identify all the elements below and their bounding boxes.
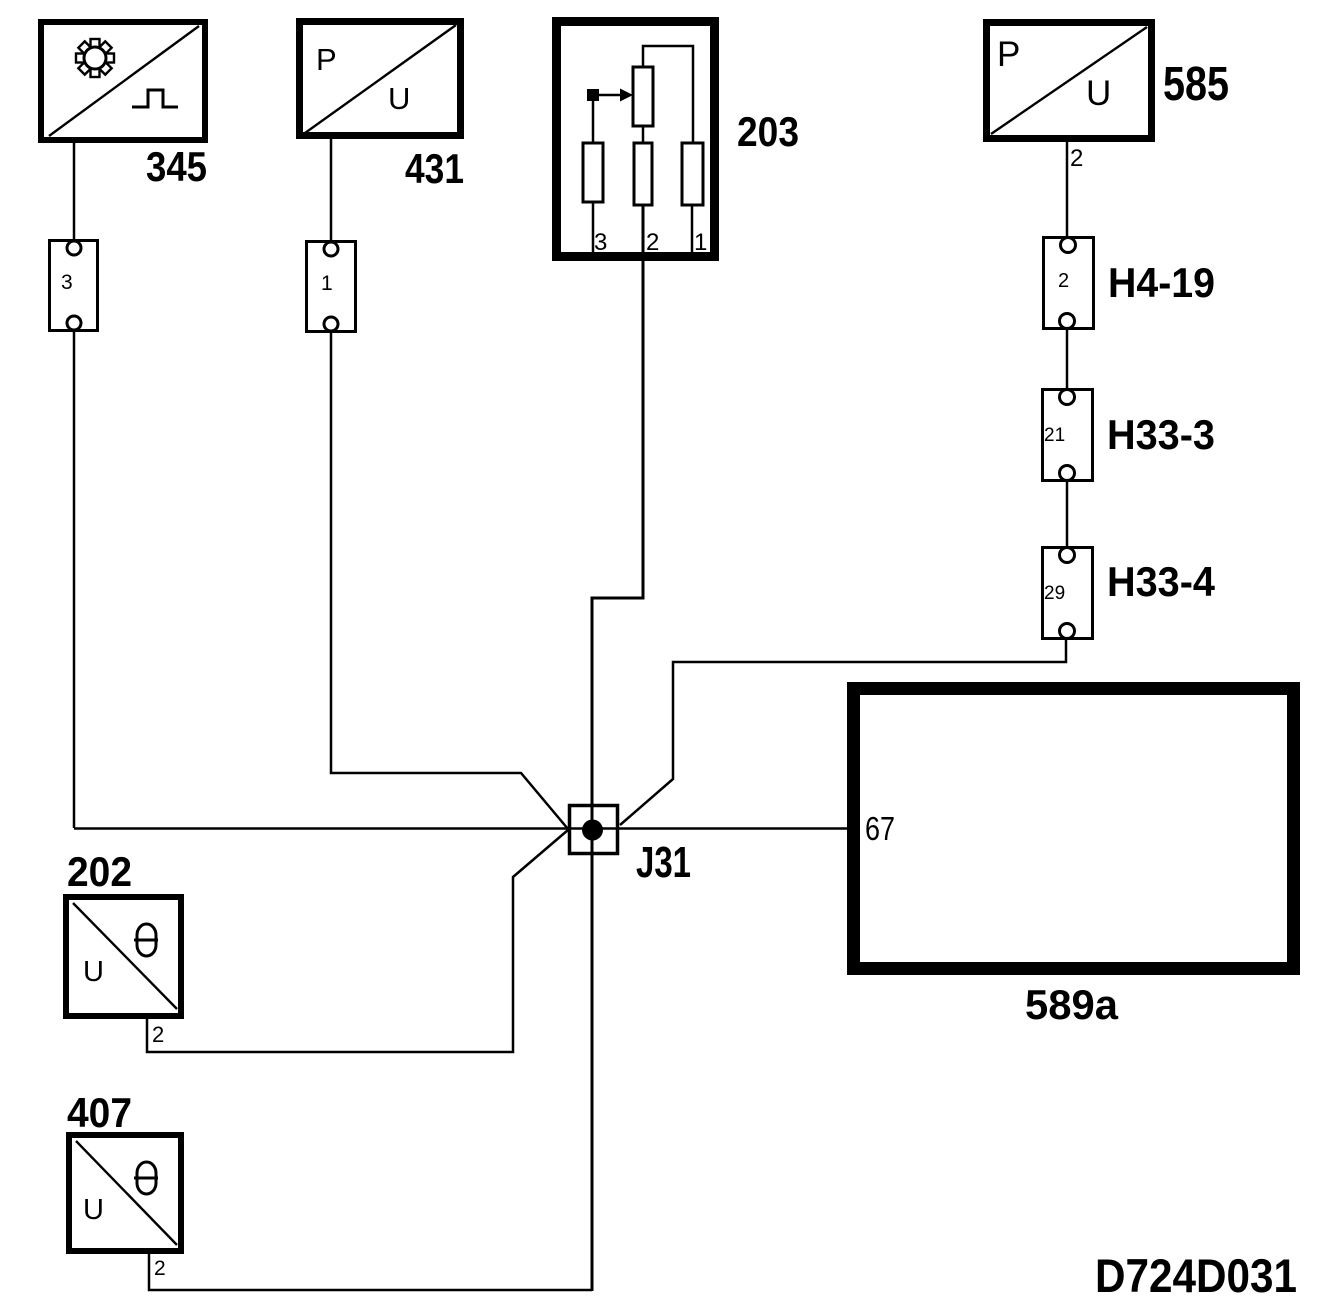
wire 202 to J31 [147,830,568,1052]
wire horizontal into junction J31 and on to 589a pin 67 [74,827,853,830]
component 203 (sensor with resistor network) [557,22,715,257]
svg-text:2: 2 [646,229,659,256]
svg-text:202: 202 [67,848,132,895]
svg-text:589a: 589a [1025,981,1119,1028]
resistor at pin 3 [583,143,603,202]
svg-text:203: 203 [737,108,799,155]
component 202 (U/theta temperature sender) [66,897,181,1016]
connector H4-19 [1044,238,1094,329]
svg-text:431: 431 [405,145,464,192]
wiper junction dot [587,89,599,101]
svg-text:3: 3 [594,229,607,256]
wire resistor 1 to box edge [691,205,694,253]
resistor at pin 1 [682,143,703,205]
svg-text:585: 585 [1163,58,1229,111]
wire resistor 3 to box edge [592,202,595,253]
wire H33-3 to H33-4 [1066,480,1069,549]
wire 585 to connector H4-19 [1066,138,1069,239]
component 407 (U/theta temperature sender) [69,1135,181,1251]
svg-text:J31: J31 [636,838,691,887]
wire H33-4 down and left to J31 [620,637,1066,825]
svg-text:U: U [388,81,410,116]
svg-text:D724D031: D724D031 [1095,1249,1297,1302]
component 585 (P/U sender box) [987,23,1152,139]
wire 407 to J31 vertical wire [149,1249,592,1290]
component 345 (pulse sender box) [41,22,205,140]
svg-text:H33-3: H33-3 [1107,411,1215,458]
control unit box 589a [854,689,1294,969]
wire connector 3 down [73,330,76,828]
svg-text:H4-19: H4-19 [1108,259,1215,306]
wire connector 1 down to J31 [331,331,568,829]
wire 203 pin 2 down to J31 and to 407 wire [592,205,643,1291]
gear symbol inside 345 [76,39,114,77]
wiper arrow into potentiometer [593,94,622,97]
wire 431 to connector 1 [330,137,333,242]
pulse waveform symbol inside 345 [132,90,178,107]
potentiometer resistor (top) [633,67,653,126]
connector 1 (in-line connector) [307,242,356,332]
svg-text:U: U [1086,74,1111,113]
svg-text:29: 29 [1044,583,1065,604]
svg-text:2: 2 [1070,145,1083,172]
svg-text:21: 21 [1044,425,1065,446]
svg-text:H33-4: H33-4 [1107,558,1216,605]
svg-text:2: 2 [154,1257,166,1280]
svg-text:2: 2 [152,1022,164,1047]
svg-text:345: 345 [146,143,207,190]
svg-text:1: 1 [694,229,707,256]
theta symbol inside 202 [134,924,158,956]
svg-text:1: 1 [321,272,333,295]
theta symbol inside 407 [134,1162,158,1194]
wire H4-19 to H33-3 [1066,328,1069,391]
svg-text:P: P [316,42,337,77]
wire wiper down to resistor 3 [592,95,595,146]
svg-text:U: U [83,956,104,988]
svg-text:P: P [997,35,1020,74]
svg-text:407: 407 [67,1089,132,1136]
connector H33-3 [1043,390,1093,481]
connector 3 (in-line connector) [50,241,98,331]
wire 345 to connector 3 [73,140,76,241]
svg-text:U: U [83,1194,104,1226]
resistor at pin 2 [634,143,652,205]
wire from top of potentiometer to resistor 1 [643,46,693,146]
junction dot J31 [582,820,603,841]
wire potentiometer bottom to resistor 2 [642,126,645,146]
svg-text:2: 2 [1058,270,1069,292]
svg-text:3: 3 [61,271,73,294]
component 431 (P/U sender box) [300,22,461,136]
svg-text:67: 67 [865,810,895,847]
connector H33-4 [1043,548,1093,639]
junction box J31 [570,806,618,854]
